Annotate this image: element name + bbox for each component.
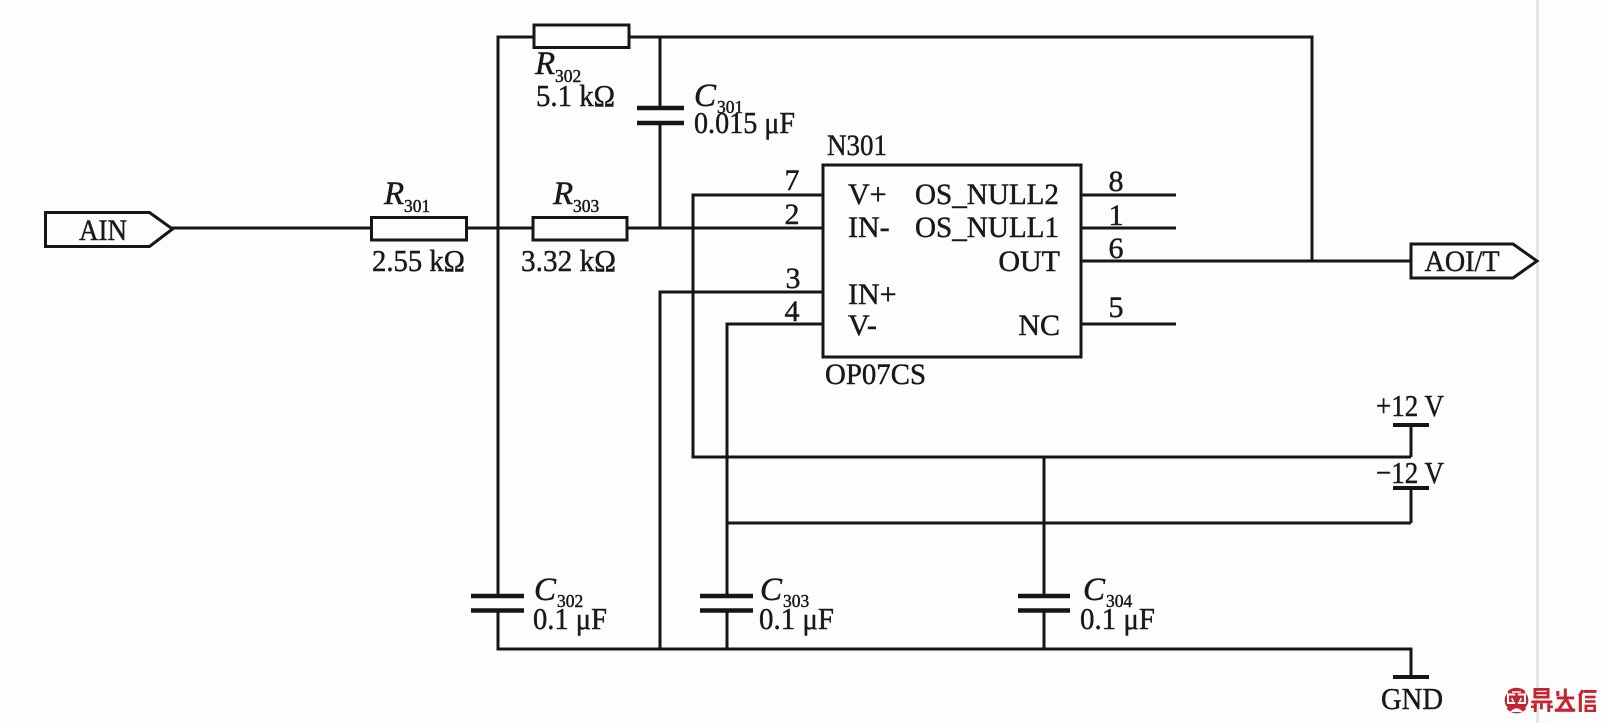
resistor R302 bbox=[534, 25, 629, 48]
svg-text:NC: NC bbox=[1018, 309, 1060, 342]
svg-text:−12 V: −12 V bbox=[1376, 455, 1445, 490]
capacitor C302 bbox=[471, 596, 524, 611]
wire ground bottom rail bbox=[497, 649, 1412, 677]
svg-text:AIN: AIN bbox=[79, 214, 127, 247]
svg-text:303: 303 bbox=[573, 196, 600, 216]
op-amp U1 N301 body bbox=[823, 165, 1081, 357]
wire C302 bottom stem bbox=[497, 611, 500, 650]
svg-text:4: 4 bbox=[785, 295, 800, 328]
C301 designator label bbox=[694, 78, 743, 117]
wire pin 1 stub bbox=[1081, 227, 1176, 230]
svg-text:V-: V- bbox=[848, 309, 877, 342]
power +12V stem bbox=[1410, 425, 1413, 457]
wire pin 8 stub bbox=[1081, 194, 1176, 197]
svg-text:0.015 μF: 0.015 μF bbox=[694, 105, 795, 140]
wire -12V rail bbox=[727, 522, 1411, 525]
svg-text:N301: N301 bbox=[827, 129, 887, 162]
page scan edge line bbox=[1536, 0, 1539, 723]
svg-text:AOI/T: AOI/T bbox=[1425, 245, 1500, 278]
svg-text:6: 6 bbox=[1109, 232, 1124, 265]
ground symbol GND bbox=[1381, 677, 1443, 716]
R301 designator label bbox=[383, 176, 430, 216]
svg-text:OS_NULL1: OS_NULL1 bbox=[915, 211, 1059, 244]
watermark text "dingdaxin" (stylized strokes) bbox=[1531, 688, 1597, 712]
svg-text:5: 5 bbox=[1109, 291, 1124, 324]
C303 designator label bbox=[760, 572, 810, 611]
wire C304 bottom stem bbox=[1043, 611, 1046, 650]
svg-text:1: 1 bbox=[1109, 199, 1124, 232]
wire pin 4 to V- vertical bbox=[727, 323, 823, 326]
svg-text:GND: GND bbox=[1381, 681, 1443, 716]
wire pin 3 IN+ branch bbox=[660, 291, 823, 294]
svg-text:0.1 μF: 0.1 μF bbox=[533, 601, 607, 636]
wire C303 bottom stem bbox=[726, 611, 729, 650]
power -12V stem bbox=[1410, 488, 1413, 523]
power symbol +12V bbox=[1376, 388, 1445, 425]
power symbol -12V bbox=[1376, 455, 1445, 490]
wire pin 5 stub bbox=[1081, 323, 1176, 326]
svg-text:R: R bbox=[552, 176, 573, 212]
capacitor C301 bbox=[637, 108, 684, 123]
svg-text:2.55 kΩ: 2.55 kΩ bbox=[372, 243, 465, 278]
svg-text:IN+: IN+ bbox=[848, 278, 897, 311]
svg-text:7: 7 bbox=[785, 164, 800, 197]
watermark logo bbox=[1504, 688, 1530, 714]
svg-text:3.32 kΩ: 3.32 kΩ bbox=[521, 243, 616, 278]
svg-text:OS_NULL2: OS_NULL2 bbox=[915, 178, 1059, 211]
svg-text:8: 8 bbox=[1109, 165, 1124, 198]
wire pin 6 OUT to AOI/T bbox=[1081, 260, 1411, 263]
output connector AOI/T bbox=[1411, 244, 1537, 278]
wire C301 top stem bbox=[659, 36, 662, 109]
svg-text:IN-: IN- bbox=[848, 211, 890, 244]
svg-text:R: R bbox=[383, 176, 404, 212]
wire +12V rail bbox=[692, 456, 1412, 459]
C302 designator label bbox=[534, 572, 583, 611]
R302 designator label bbox=[534, 46, 581, 86]
wire C301 bottom stem bbox=[659, 123, 662, 230]
svg-text:0.1 μF: 0.1 μF bbox=[1080, 601, 1155, 636]
svg-text:301: 301 bbox=[404, 196, 430, 216]
R303 designator label bbox=[552, 176, 600, 216]
capacitor C303 bbox=[700, 596, 753, 611]
wire pin 7 to V+ vertical bbox=[693, 194, 823, 197]
input connector AIN bbox=[46, 213, 173, 248]
capacitor C304 bbox=[1018, 596, 1070, 611]
svg-text:V+: V+ bbox=[848, 178, 887, 211]
wire C304 branch from +12V rail bbox=[1043, 457, 1046, 596]
svg-text:R: R bbox=[534, 46, 555, 82]
svg-text:0.1 μF: 0.1 μF bbox=[759, 601, 834, 636]
svg-text:+12 V: +12 V bbox=[1376, 388, 1445, 423]
resistor R301 bbox=[372, 218, 467, 241]
svg-text:2: 2 bbox=[785, 198, 800, 231]
svg-text:OUT: OUT bbox=[998, 245, 1060, 278]
resistor R303 bbox=[533, 218, 627, 241]
svg-text:5.1 kΩ: 5.1 kΩ bbox=[536, 78, 615, 113]
svg-text:OP07CS: OP07CS bbox=[825, 358, 926, 391]
wire left vertical branch R302/C302 bbox=[497, 36, 500, 597]
wire feedback top net bbox=[498, 37, 1312, 261]
wire main input net AIN to pin 2 bbox=[172, 227, 823, 230]
svg-text:3: 3 bbox=[786, 262, 801, 295]
C304 designator label bbox=[1083, 572, 1133, 611]
